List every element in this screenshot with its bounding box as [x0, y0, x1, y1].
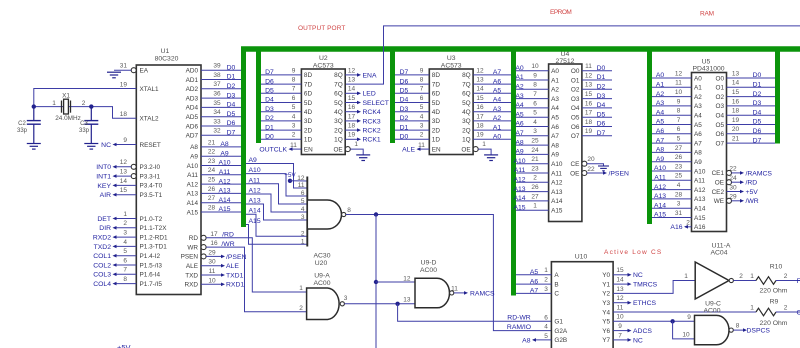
wire D4 input to U3 — [395, 102, 429, 104]
svg-text:A9: A9 — [190, 154, 198, 161]
svg-text:7D: 7D — [432, 81, 441, 88]
svg-text:5D: 5D — [432, 100, 441, 107]
wire D0 input to U3 — [395, 138, 429, 140]
wire R10 to edge — [776, 280, 800, 282]
svg-text:A5: A5 — [694, 122, 702, 129]
svg-text:1: 1 — [299, 285, 303, 292]
svg-text:2D: 2D — [304, 127, 313, 134]
pin P1.1-T2X of U1 net DIR — [114, 227, 136, 229]
svg-text:2: 2 — [686, 220, 690, 227]
svg-text:12: 12 — [585, 72, 593, 79]
svg-text:TXD2: TXD2 — [94, 244, 112, 251]
svg-text:D5: D5 — [597, 111, 606, 118]
svg-text:6: 6 — [123, 257, 127, 264]
svg-text:A9: A9 — [220, 150, 229, 157]
svg-text:8: 8 — [533, 82, 537, 89]
svg-text:OE: OE — [715, 180, 724, 187]
svg-text:RCK2: RCK2 — [363, 128, 381, 135]
svg-text:A13: A13 — [654, 193, 666, 200]
wire D4 input to U2 — [261, 102, 301, 104]
svg-text:P3.5-T1: P3.5-T1 — [140, 192, 163, 199]
pin P1.6-I4 of U1 net COL3 — [114, 273, 136, 275]
svg-text:A0: A0 — [694, 75, 702, 82]
svg-text:3: 3 — [677, 201, 681, 208]
node junction left of crystal — [32, 104, 36, 108]
svg-text:D3: D3 — [400, 106, 409, 113]
svg-text:D4: D4 — [400, 97, 409, 104]
svg-text:80C320: 80C320 — [155, 56, 179, 63]
svg-text:23: 23 — [208, 158, 216, 165]
svg-text:2Q: 2Q — [334, 127, 343, 134]
svg-text:3: 3 — [292, 123, 296, 130]
wire AD1 of U1 to bus, net D1 — [201, 79, 241, 81]
svg-text:DET: DET — [97, 216, 111, 223]
wire A0 from bus to U5 — [652, 77, 692, 79]
wire O5 of U5 to bus net D5 — [727, 124, 776, 126]
svg-text:35: 35 — [213, 100, 221, 107]
wire A10 of U1 to bus — [201, 165, 241, 167]
svg-text:12: 12 — [616, 295, 624, 302]
svg-text:27: 27 — [531, 193, 539, 200]
svg-text:O2: O2 — [571, 87, 580, 94]
wire A13 from bus to U4 — [516, 191, 549, 193]
svg-text:5: 5 — [123, 248, 127, 255]
svg-text:A16: A16 — [694, 224, 706, 231]
svg-text:A6: A6 — [656, 128, 665, 135]
wire crystal top — [34, 106, 92, 108]
svg-text:AD6: AD6 — [186, 123, 199, 130]
node junction on U20 output — [374, 212, 378, 216]
mcu U1 80C320 — [136, 65, 201, 295]
svg-text:3: 3 — [533, 128, 537, 135]
svg-text:8: 8 — [123, 276, 127, 283]
svg-text:1: 1 — [533, 203, 537, 210]
svg-text:A10: A10 — [249, 167, 261, 174]
svg-text:3: 3 — [301, 214, 305, 221]
svg-text:EA: EA — [140, 68, 149, 75]
svg-text:13: 13 — [732, 70, 740, 77]
svg-text:7Q: 7Q — [334, 81, 343, 88]
svg-text:5Q: 5Q — [462, 100, 471, 107]
svg-text:4Q: 4Q — [334, 109, 343, 116]
svg-text:U5: U5 — [702, 59, 711, 66]
node junction right of crystal — [89, 104, 93, 108]
wire Y5 to U9-C inputs — [613, 320, 696, 322]
svg-text:A4: A4 — [551, 105, 559, 112]
svg-text:D3: D3 — [753, 100, 762, 107]
svg-text:AC00: AC00 — [313, 280, 330, 287]
svg-text:A14: A14 — [694, 206, 706, 213]
bus vertical drop feeding U2 inputs — [256, 47, 261, 144]
svg-text:A2: A2 — [656, 91, 665, 98]
svg-text:22: 22 — [729, 166, 737, 173]
svg-text:16: 16 — [476, 104, 484, 111]
wire A6 from bus to U5 — [652, 133, 692, 135]
svg-text:24: 24 — [531, 147, 539, 154]
wire O4 of U5 to bus net D4 — [727, 114, 776, 116]
svg-text:A5: A5 — [551, 115, 559, 122]
svg-text:16: 16 — [732, 98, 740, 105]
svg-text:RESET: RESET — [140, 142, 161, 149]
svg-text:7: 7 — [533, 91, 537, 98]
wire A12 of U1 to bus — [201, 183, 241, 185]
wire A12 from bus to U5 — [652, 189, 692, 191]
svg-text:D6: D6 — [597, 121, 606, 128]
svg-text:O1: O1 — [571, 77, 580, 84]
svg-text:A11: A11 — [514, 167, 526, 174]
pin WR of U1 net /WR — [201, 245, 206, 250]
svg-text:20: 20 — [732, 126, 740, 133]
svg-text:AD3: AD3 — [186, 95, 199, 102]
svg-text:A3: A3 — [551, 96, 559, 103]
svg-text:XTAL2: XTAL2 — [140, 116, 160, 123]
svg-text:6: 6 — [292, 95, 296, 102]
svg-text:A15: A15 — [551, 208, 563, 215]
wire 5Q of U3 to bus, net A4 — [473, 102, 511, 104]
svg-text:29: 29 — [729, 194, 737, 201]
svg-text:A8: A8 — [522, 337, 531, 344]
svg-text:D5: D5 — [227, 111, 236, 118]
svg-text:2: 2 — [784, 273, 788, 280]
svg-text:27: 27 — [675, 145, 683, 152]
svg-text:22: 22 — [587, 166, 595, 173]
svg-text:D1: D1 — [597, 74, 606, 81]
svg-text:Y7: Y7 — [602, 337, 610, 344]
svg-text:31: 31 — [675, 210, 683, 217]
svg-text:2: 2 — [292, 132, 296, 139]
svg-text:4D: 4D — [304, 109, 313, 116]
wire O5 of U4 net D5 — [582, 116, 612, 118]
svg-text:A3: A3 — [694, 103, 702, 110]
svg-text:A15: A15 — [654, 212, 666, 219]
svg-text:A13: A13 — [249, 198, 261, 205]
svg-text:7Q: 7Q — [462, 81, 471, 88]
pin A16 of U5 net A16 — [685, 226, 692, 228]
svg-text:1: 1 — [750, 273, 754, 280]
svg-text:15: 15 — [120, 187, 128, 194]
svg-text:A15: A15 — [694, 215, 706, 222]
svg-text:D1: D1 — [753, 82, 762, 89]
wire A6 from bus to U4 — [516, 126, 549, 128]
wire A9 of U1 to bus — [201, 155, 241, 157]
svg-text:D0: D0 — [265, 134, 274, 141]
wire AD5 of U1 to bus, net D5 — [201, 116, 241, 118]
svg-text:AD2: AD2 — [186, 86, 199, 93]
svg-text:A12: A12 — [654, 184, 666, 191]
wire D2 input to U3 — [395, 120, 429, 122]
bus vertical address bus at EPROM — [511, 47, 516, 296]
svg-text:11: 11 — [298, 182, 305, 189]
svg-text:1: 1 — [544, 267, 548, 274]
svg-text:RCK3: RCK3 — [363, 118, 381, 125]
svg-text:EN: EN — [304, 146, 313, 153]
svg-text:21: 21 — [531, 156, 539, 163]
svg-text:39: 39 — [213, 63, 221, 70]
wire AD7 of U1 to bus, net D7 — [201, 134, 241, 136]
svg-text:26: 26 — [208, 186, 216, 193]
svg-text:5: 5 — [301, 198, 305, 205]
svg-text:A6: A6 — [493, 78, 502, 85]
svg-text:19: 19 — [120, 82, 128, 89]
svg-text:A5: A5 — [515, 111, 524, 118]
svg-text:26: 26 — [675, 154, 683, 161]
wire 1Q of U3 to bus, net A0 — [473, 138, 511, 140]
svg-text:D4: D4 — [753, 109, 762, 116]
svg-text:A15: A15 — [218, 206, 230, 213]
svg-text:11: 11 — [451, 286, 458, 293]
wire U9-D output net RAMCS — [454, 292, 464, 294]
svg-text:17: 17 — [476, 113, 484, 120]
svg-text:12: 12 — [348, 67, 356, 74]
svg-text:17: 17 — [585, 110, 593, 117]
svg-text:3D: 3D — [304, 118, 313, 125]
svg-text:5: 5 — [420, 104, 424, 111]
svg-text:P1.4-I2: P1.4-I2 — [140, 253, 161, 260]
svg-text:O0: O0 — [715, 75, 724, 82]
svg-text:P3.4-T0: P3.4-T0 — [140, 183, 163, 190]
svg-text:9: 9 — [420, 67, 424, 74]
svg-text:AIR: AIR — [100, 192, 111, 199]
svg-text:EPROM: EPROM — [550, 9, 571, 16]
svg-text:ALE: ALE — [226, 263, 239, 270]
svg-text:A16: A16 — [670, 224, 682, 231]
svg-text:A13: A13 — [218, 188, 230, 195]
svg-text:A12: A12 — [249, 188, 261, 195]
wire A10 from bus to U5 — [652, 170, 692, 172]
svg-text:U2: U2 — [319, 55, 328, 62]
svg-text:D1: D1 — [265, 124, 274, 131]
svg-text:F: F — [797, 278, 800, 285]
capacitor C3 33p — [90, 107, 92, 120]
svg-text:X1: X1 — [62, 93, 70, 100]
wire A3 from bus to U5 — [652, 105, 692, 107]
svg-text:INT0: INT0 — [96, 164, 111, 171]
svg-text:ALE: ALE — [186, 263, 198, 270]
svg-text:8D: 8D — [304, 72, 313, 79]
wire RD-WR to U10 G1 — [398, 304, 552, 322]
svg-text:1: 1 — [750, 305, 754, 312]
svg-text:9: 9 — [533, 72, 537, 79]
svg-text:D4: D4 — [227, 102, 236, 109]
svg-text:6: 6 — [301, 190, 305, 197]
svg-text:O6: O6 — [571, 124, 580, 131]
svg-text:D3: D3 — [265, 106, 274, 113]
pin EN of U3 net ALE — [418, 148, 430, 150]
pin RESET of U1 marked NC — [114, 144, 136, 146]
svg-text:C: C — [797, 309, 800, 316]
svg-text:O7: O7 — [571, 133, 580, 140]
svg-text:25: 25 — [531, 138, 539, 145]
wire D6 input to U3 — [395, 83, 429, 85]
wire 6Q of U3 to bus, net A5 — [473, 92, 511, 94]
svg-text:2: 2 — [533, 175, 537, 182]
wire A12 from bus to U4 — [516, 181, 549, 183]
svg-text:D6: D6 — [227, 120, 236, 127]
svg-text:3: 3 — [420, 123, 424, 130]
svg-text:19: 19 — [476, 132, 484, 139]
svg-text:R9: R9 — [770, 298, 779, 305]
svg-text:2: 2 — [544, 277, 548, 284]
wire A13 of U1 to bus — [201, 192, 241, 194]
svg-text:NC: NC — [101, 142, 111, 149]
svg-text:+5V: +5V — [117, 343, 131, 348]
svg-text:D2: D2 — [227, 83, 236, 90]
svg-text:7: 7 — [123, 267, 127, 274]
resistor R9 220 Ohm — [756, 308, 776, 316]
svg-text:D2: D2 — [753, 91, 762, 98]
wire A14 from bus to U5 — [652, 207, 692, 209]
svg-text:RXD2: RXD2 — [93, 235, 111, 242]
svg-text:Y4: Y4 — [602, 309, 610, 316]
svg-text:13: 13 — [348, 77, 356, 84]
pin G2B of U10 net A8 — [533, 339, 551, 341]
svg-text:A5: A5 — [493, 88, 502, 95]
svg-text:6D: 6D — [432, 91, 441, 98]
svg-text:14: 14 — [120, 178, 128, 185]
svg-text:13: 13 — [585, 82, 593, 89]
svg-text:D5: D5 — [400, 88, 409, 95]
pin P3.3 INT1 of U1 — [131, 174, 136, 179]
svg-text:O7: O7 — [715, 140, 724, 147]
svg-text:4: 4 — [677, 182, 681, 189]
svg-text:A3: A3 — [656, 100, 665, 107]
wire A14 of U1 to bus — [201, 202, 241, 204]
svg-text:38: 38 — [213, 72, 221, 79]
svg-text:A8: A8 — [515, 139, 524, 146]
svg-text:U10: U10 — [575, 253, 588, 260]
svg-text:15: 15 — [616, 267, 624, 274]
wire A15 of U1 to bus — [201, 211, 241, 213]
svg-text:25: 25 — [208, 177, 216, 184]
svg-text:6: 6 — [677, 126, 681, 133]
svg-text:24: 24 — [208, 167, 216, 174]
wire net A13 from bus to U20 input — [246, 204, 307, 220]
svg-text:28: 28 — [208, 204, 216, 211]
svg-text:2D: 2D — [432, 127, 441, 134]
svg-text:3: 3 — [344, 295, 348, 302]
svg-text:CE1: CE1 — [712, 170, 725, 177]
svg-text:A6: A6 — [530, 278, 539, 285]
svg-text:A14: A14 — [218, 197, 230, 204]
svg-text:NC: NC — [633, 337, 643, 344]
svg-text:A9: A9 — [515, 149, 524, 156]
svg-text:A8: A8 — [190, 144, 198, 151]
svg-text:1: 1 — [684, 273, 688, 280]
svg-text:5: 5 — [544, 333, 548, 340]
svg-text:27512: 27512 — [556, 58, 575, 65]
svg-text:A14: A14 — [249, 208, 261, 215]
svg-text:A2: A2 — [493, 115, 502, 122]
svg-text:A13: A13 — [187, 191, 199, 198]
svg-text:D7: D7 — [400, 69, 409, 76]
svg-text:8Q: 8Q — [334, 72, 343, 79]
svg-text:21: 21 — [208, 139, 216, 146]
wire O1 of U4 net D1 — [582, 79, 612, 81]
svg-text:12: 12 — [120, 159, 128, 166]
svg-text:34: 34 — [213, 109, 221, 116]
svg-text:AC573: AC573 — [313, 62, 334, 69]
svg-text:13: 13 — [476, 77, 484, 84]
svg-text:36: 36 — [213, 91, 221, 98]
svg-text:CE2: CE2 — [712, 189, 725, 196]
svg-text:9: 9 — [687, 314, 691, 321]
svg-text:30: 30 — [729, 184, 737, 191]
svg-text:A11: A11 — [551, 170, 562, 177]
svg-text:/PSEN: /PSEN — [226, 254, 246, 261]
wire net A9 from bus to U20 input — [246, 164, 307, 189]
svg-text:D7: D7 — [753, 137, 762, 144]
wire D7 input to U3 — [395, 74, 429, 76]
svg-text:U9-D: U9-D — [421, 260, 437, 267]
svg-text:U9-A: U9-A — [314, 273, 330, 280]
wire A9 from bus to U4 — [516, 153, 549, 155]
svg-text:RCK1: RCK1 — [363, 137, 381, 144]
svg-text:A11: A11 — [219, 169, 231, 176]
svg-text:8: 8 — [736, 323, 740, 330]
svg-text:21: 21 — [732, 136, 740, 143]
wire A14 from bus to U4 — [516, 200, 549, 202]
wire O3 of U5 to bus net D3 — [727, 105, 776, 107]
wire AD6 of U1 to bus, net D6 — [201, 125, 241, 127]
svg-text:A7: A7 — [694, 140, 702, 147]
wire A5 from bus to U10 A — [516, 274, 551, 276]
svg-text:14: 14 — [348, 86, 356, 93]
svg-text:A6: A6 — [694, 131, 702, 138]
svg-text:4: 4 — [544, 324, 548, 331]
svg-text:A5: A5 — [530, 269, 539, 276]
svg-text:KEY: KEY — [97, 183, 111, 190]
svg-text:A12: A12 — [551, 180, 563, 187]
svg-text:13: 13 — [403, 297, 411, 304]
svg-text:A6: A6 — [515, 121, 524, 128]
wire D1 input to U3 — [395, 129, 429, 131]
pin EA of U1 with ground — [131, 68, 136, 73]
svg-text:A0: A0 — [515, 65, 524, 72]
svg-text:11: 11 — [209, 268, 216, 275]
svg-text:7: 7 — [618, 332, 622, 339]
svg-text:2: 2 — [123, 220, 127, 227]
svg-text:P3.2-I0: P3.2-I0 — [140, 164, 161, 171]
svg-text:30: 30 — [208, 259, 216, 266]
svg-text:A1: A1 — [515, 74, 524, 81]
svg-text:8: 8 — [420, 77, 424, 84]
decoder U10 — [551, 262, 613, 348]
svg-text:/RD: /RD — [746, 180, 758, 187]
svg-text:10: 10 — [682, 332, 690, 339]
svg-text:O4: O4 — [571, 105, 580, 112]
svg-text:D6: D6 — [753, 128, 762, 135]
svg-text:15: 15 — [476, 95, 484, 102]
svg-text:A1: A1 — [656, 82, 665, 89]
svg-text:4Q: 4Q — [462, 109, 471, 116]
svg-text:15: 15 — [732, 89, 740, 96]
svg-text:G2B: G2B — [554, 337, 567, 344]
svg-text:A5: A5 — [656, 119, 665, 126]
svg-text:O2: O2 — [715, 94, 724, 101]
pin P1.7-/I5 of U1 net COL4 — [114, 283, 136, 285]
svg-text:31: 31 — [120, 63, 128, 70]
svg-text:R10: R10 — [770, 264, 783, 271]
wire XTAL2 net — [91, 107, 136, 119]
svg-text:14: 14 — [732, 80, 740, 87]
svg-text:220 Ohm: 220 Ohm — [760, 288, 788, 295]
svg-text:RD-WR: RD-WR — [507, 315, 530, 322]
svg-text:5: 5 — [677, 136, 681, 143]
svg-text:AC00: AC00 — [703, 307, 720, 314]
svg-text:6: 6 — [533, 100, 537, 107]
svg-text:16: 16 — [585, 100, 593, 107]
svg-text:Y6: Y6 — [602, 328, 610, 335]
